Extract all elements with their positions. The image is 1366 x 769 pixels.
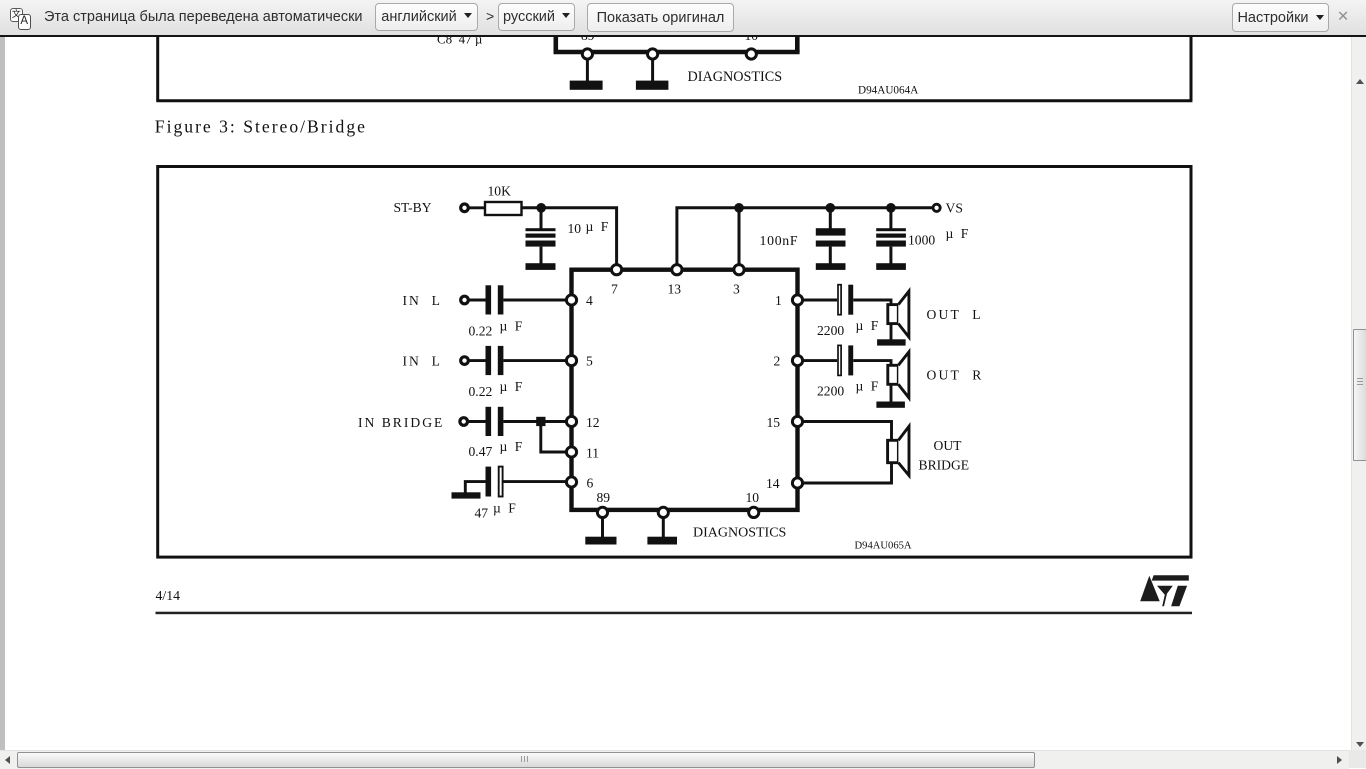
svg-text:Figure 3: Stereo/Bridge: Figure 3: Stereo/Bridge bbox=[155, 117, 367, 137]
wire C8 to speaker LS1 bbox=[853, 300, 891, 305]
svg-text:µ F: µ F bbox=[586, 219, 611, 234]
google translate toolbar bbox=[0, 0, 1366, 37]
wire C4 to pin 4 bbox=[503, 299, 566, 302]
ground GND3 below pin 89 bbox=[585, 517, 616, 544]
speaker LS2 cone bbox=[898, 352, 909, 398]
speaker LS1 box bbox=[888, 305, 899, 324]
capacitor C1 top plate (polarized) bbox=[526, 228, 556, 231]
ground GND7 below LS2 bbox=[876, 384, 905, 408]
vertical scrollbar bbox=[1351, 37, 1366, 751]
capacitor C8 2200uF left plate (polarized) bbox=[838, 285, 841, 315]
pin 89 circle (bottom) bbox=[597, 507, 607, 517]
svg-text:IN L: IN L bbox=[403, 293, 442, 308]
svg-text:VS: VS bbox=[946, 201, 963, 216]
resistor R1 10K bbox=[485, 202, 522, 215]
pin 5 circle bbox=[566, 356, 576, 366]
svg-text:47: 47 bbox=[475, 505, 489, 520]
svg-text:4: 4 bbox=[586, 293, 593, 308]
svg-text:100nF: 100nF bbox=[760, 233, 799, 248]
footer rule bbox=[156, 612, 1193, 615]
pin 15 circle bbox=[792, 416, 802, 426]
pin 10 circle (bottom) bbox=[749, 507, 759, 517]
capacitor C9 right plate bbox=[848, 345, 853, 375]
pin 6 circle bbox=[566, 477, 576, 487]
capacitor C5 right plate bbox=[498, 346, 504, 375]
svg-text:1: 1 bbox=[775, 293, 782, 308]
VS terminal bbox=[933, 204, 940, 211]
ST logo bbox=[1140, 575, 1189, 606]
ground GND4 below mid pin bbox=[647, 517, 677, 544]
wire pin 14 to bridge speaker bbox=[802, 463, 891, 483]
svg-text:0.22: 0.22 bbox=[469, 323, 493, 338]
pin mid circle (figure2) bbox=[648, 49, 658, 59]
pin mid circle (bottom) bbox=[658, 507, 668, 517]
svg-text:10: 10 bbox=[746, 490, 760, 505]
speaker LS2 box bbox=[888, 365, 899, 384]
ground GND1 (figure2) bbox=[570, 59, 603, 90]
capacitor C3 bottom plate bbox=[876, 241, 906, 247]
capacitor C6 right plate bbox=[498, 407, 504, 436]
svg-text:µ F: µ F bbox=[500, 379, 525, 394]
capacitor C3 top plate (polarized) bbox=[876, 228, 906, 231]
wire C6 to pin 12 bbox=[503, 420, 566, 423]
svg-text:µ F: µ F bbox=[500, 439, 525, 454]
svg-text:D94AU065A: D94AU065A bbox=[855, 541, 912, 552]
left gray strip bbox=[0, 37, 5, 750]
pin 11 circle bbox=[566, 447, 576, 457]
wire C9 to speaker LS2 bbox=[853, 361, 891, 366]
pin 13 circle bbox=[672, 265, 682, 275]
capacitor C4 0.22uF left plate bbox=[486, 285, 492, 314]
svg-text:0.47: 0.47 bbox=[469, 444, 493, 459]
pin 7 circle bbox=[612, 265, 622, 275]
wire C5 to pin 5 bbox=[503, 359, 566, 362]
capacitor C1 bottom plate bbox=[526, 241, 556, 247]
wire VS rail with drop to pin 13 bbox=[677, 208, 933, 264]
capacitor C2 bottom plate bbox=[816, 241, 846, 247]
IC U1 (figure2) bottom edge fragment bbox=[554, 30, 800, 52]
pin 12 circle bbox=[566, 416, 576, 426]
wire pin 2 to C9 bbox=[802, 359, 837, 362]
IC U1 body bbox=[572, 270, 798, 510]
translate icon: front square with A bbox=[18, 14, 32, 30]
svg-text:89: 89 bbox=[597, 490, 611, 505]
horizontal scrollbar bbox=[0, 750, 1349, 769]
junction dot at R1 output bbox=[536, 203, 546, 213]
IN L terminal (1) bbox=[461, 296, 469, 304]
figure2 frame right border bbox=[1190, 30, 1193, 101]
svg-text:10K: 10K bbox=[488, 184, 512, 199]
ground below C1 bbox=[526, 263, 556, 270]
figure2 frame bottom border bbox=[156, 99, 1192, 102]
IN L terminal (2) bbox=[461, 357, 469, 365]
svg-text:15: 15 bbox=[767, 415, 781, 430]
svg-text:µ F: µ F bbox=[493, 500, 518, 515]
capacitor C1 lower stem bbox=[540, 247, 543, 264]
capacitor C7 47uF left plate bbox=[486, 467, 492, 497]
svg-text:µ F: µ F bbox=[500, 318, 525, 333]
pin 2 circle bbox=[792, 356, 802, 366]
junction square node bbox=[536, 417, 545, 426]
svg-text:1000: 1000 bbox=[908, 232, 935, 247]
svg-text:DIAGNOSTICS: DIAGNOSTICS bbox=[693, 525, 786, 540]
ground below C3 bbox=[876, 263, 906, 270]
figure2 frame left border bbox=[156, 30, 159, 101]
svg-text:6: 6 bbox=[587, 475, 594, 490]
wire ST-BY to R1 bbox=[468, 206, 485, 209]
svg-text:0.22: 0.22 bbox=[469, 384, 493, 399]
svg-text:3: 3 bbox=[733, 282, 740, 297]
pin 10 circle (figure2) bbox=[746, 49, 756, 59]
svg-text:10: 10 bbox=[568, 221, 582, 236]
wire C7 to pin 6 bbox=[503, 480, 566, 483]
svg-text:13: 13 bbox=[668, 282, 682, 297]
svg-text:OUT R: OUT R bbox=[927, 367, 984, 382]
pin 14 circle bbox=[792, 478, 802, 488]
ground GND6 below LS1 bbox=[877, 324, 906, 346]
pin 4 circle bbox=[566, 295, 576, 305]
pin 1 circle bbox=[792, 295, 802, 305]
wire junction to pin 11 bbox=[541, 426, 567, 452]
speaker LS3 cone bbox=[898, 426, 909, 475]
capacitor C7 right plate (polarized) bbox=[499, 467, 503, 497]
IN BRIDGE terminal bbox=[460, 418, 468, 426]
ST-BY terminal bbox=[461, 204, 469, 212]
svg-text:14: 14 bbox=[766, 476, 780, 491]
svg-text:D94AU064A: D94AU064A bbox=[858, 85, 918, 97]
speaker LS3 box bbox=[888, 440, 899, 462]
svg-text:12: 12 bbox=[586, 415, 600, 430]
capacitor C5 0.22uF left plate bbox=[486, 346, 492, 375]
wire pin 1 to C8 bbox=[802, 299, 837, 302]
capacitor C2 lower stem bbox=[829, 247, 832, 264]
figure3 border box bbox=[158, 167, 1191, 558]
capacitor C4 right plate bbox=[498, 285, 504, 314]
svg-text:µ F: µ F bbox=[856, 318, 881, 333]
svg-text:7: 7 bbox=[611, 282, 618, 297]
wire pin 15 to bridge speaker bbox=[802, 422, 891, 441]
junction dot above C3 bbox=[886, 203, 896, 213]
svg-text:ST-BY: ST-BY bbox=[394, 200, 432, 215]
svg-text:BRIDGE: BRIDGE bbox=[919, 458, 970, 473]
capacitor C8 right plate bbox=[848, 285, 853, 315]
ground GND5 left of C7 bbox=[452, 482, 486, 499]
svg-text:DIAGNOSTICS: DIAGNOSTICS bbox=[688, 69, 783, 85]
pin 89 circle (figure2) bbox=[582, 49, 592, 59]
junction dot above C2 bbox=[826, 203, 836, 213]
capacitor C3 1000uF stem bbox=[889, 208, 892, 229]
svg-text:OUT: OUT bbox=[934, 438, 963, 453]
svg-text:IN BRIDGE: IN BRIDGE bbox=[358, 415, 444, 430]
svg-text:4/14: 4/14 bbox=[156, 588, 181, 603]
pin 3 circle bbox=[734, 265, 744, 275]
capacitor C2 top plate bbox=[816, 228, 846, 235]
wire terminal to C6 bbox=[468, 420, 486, 423]
svg-text:µ F: µ F bbox=[856, 379, 881, 394]
svg-text:OUT L: OUT L bbox=[927, 307, 983, 322]
capacitor C9 2200uF left plate (polarized) bbox=[838, 345, 841, 375]
ground below C2 bbox=[816, 263, 846, 270]
wire R1 to pin 7 corner bbox=[522, 208, 617, 264]
ground GND2 (figure2) bbox=[636, 59, 669, 90]
wire terminal to C5 bbox=[468, 359, 485, 362]
svg-text:IN L: IN L bbox=[403, 354, 442, 369]
svg-text:2200: 2200 bbox=[817, 323, 844, 338]
wire terminal to C4 bbox=[468, 299, 485, 302]
svg-text:µ F: µ F bbox=[946, 226, 971, 241]
capacitor C3 lower stem bbox=[889, 247, 892, 264]
svg-text:2200: 2200 bbox=[817, 384, 844, 399]
wire rail to pin 3 bbox=[738, 208, 741, 264]
translate icon: back square with 文 bbox=[10, 8, 23, 22]
capacitor C1 10uF stem bbox=[540, 208, 543, 229]
junction dot above pin 3 bbox=[734, 203, 744, 213]
svg-text:5: 5 bbox=[586, 354, 593, 369]
capacitor C2 100nF stem bbox=[829, 208, 832, 229]
speaker LS1 cone bbox=[898, 291, 909, 337]
svg-text:11: 11 bbox=[586, 446, 599, 461]
capacitor C6 0.47uF left plate bbox=[486, 407, 492, 436]
svg-text:2: 2 bbox=[774, 354, 781, 369]
